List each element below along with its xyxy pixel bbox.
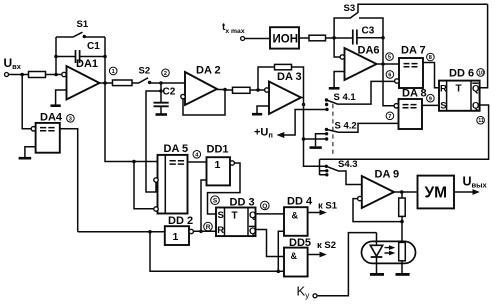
ground	[156, 113, 168, 116]
capacitor C3	[353, 18, 385, 64]
gate DD5	[284, 237, 311, 277]
LED	[370, 233, 382, 274]
svg-text:&: &	[292, 211, 299, 221]
wire DA9 feedback	[353, 199, 404, 224]
svg-text:S1: S1	[77, 19, 89, 30]
wire DA6 bubble input	[334, 38, 340, 57]
op-amp DA3	[256, 71, 301, 114]
svg-text:DD 4: DD 4	[287, 196, 313, 208]
svg-text:Q: Q	[262, 203, 267, 210]
wire to DA1	[46, 73, 62, 77]
resistor R2	[113, 80, 133, 86]
svg-text:11: 11	[478, 118, 484, 124]
svg-text:C2: C2	[163, 87, 176, 98]
node R	[204, 222, 213, 231]
svg-text:DA 7: DA 7	[401, 45, 426, 57]
svg-text:S: S	[213, 198, 218, 205]
resistor R1	[29, 72, 46, 78]
label t x max	[222, 22, 245, 35]
svg-text:DD5: DD5	[289, 237, 311, 249]
op-amp DA1	[62, 58, 100, 100]
opto arrows	[385, 245, 396, 255]
node 3	[67, 115, 75, 123]
wire DD3 Q to DD4	[256, 213, 285, 215]
svg-text:S: S	[218, 210, 224, 221]
switch S1	[56, 19, 105, 38]
node Q	[261, 201, 270, 210]
wire DA2 feedback	[183, 88, 227, 115]
wire DA8 out to DD6 S	[422, 104, 439, 106]
node S	[211, 196, 220, 205]
svg-text:DD 6: DD 6	[449, 68, 474, 80]
svg-text:&: &	[291, 251, 298, 261]
label K u	[297, 284, 311, 301]
svg-text:T: T	[456, 84, 462, 95]
svg-text:Q: Q	[472, 101, 479, 112]
ground	[370, 273, 384, 276]
svg-text:DA 8: DA 8	[402, 88, 427, 100]
svg-text:УМ: УМ	[425, 185, 448, 202]
wire DA1 output	[100, 81, 113, 85]
photoresistor	[399, 242, 406, 273]
wire to DA5 lower bubble	[134, 162, 154, 209]
svg-text:Kу: Kу	[297, 284, 311, 301]
wire feedback right vertical	[103, 37, 107, 83]
svg-text:Q: Q	[249, 226, 256, 237]
svg-text:6: 6	[388, 73, 391, 79]
op-amp DA9	[358, 169, 400, 209]
wire to DA2	[159, 81, 185, 85]
svg-text:+Uп: +Uп	[254, 127, 273, 140]
comparator DA5	[154, 143, 188, 214]
optocoupler	[362, 241, 416, 263]
ground	[329, 87, 340, 90]
svg-text:Uвх: Uвх	[4, 56, 22, 71]
node 6	[386, 71, 394, 79]
svg-text:S2: S2	[139, 66, 151, 77]
wire bottom bus	[150, 232, 284, 273]
svg-text:DA 9: DA 9	[375, 169, 400, 181]
svg-text:S 4.2: S 4.2	[335, 121, 357, 132]
gang dashed line	[332, 104, 334, 157]
wire DD6 Qbar out top loop	[480, 4, 488, 88]
gate DD4	[284, 196, 313, 236]
svg-text:Q: Q	[472, 84, 479, 95]
capacitor C1	[56, 41, 105, 63]
wire +Up arrow	[277, 108, 329, 138]
arrow k S1	[308, 201, 338, 216]
svg-text:R: R	[440, 84, 447, 95]
node 9	[427, 94, 435, 102]
op-amp DA2	[181, 65, 221, 106]
svg-text:S: S	[440, 101, 446, 112]
svg-text:DD1: DD1	[207, 144, 229, 156]
node 8	[427, 53, 435, 61]
wire DA3 out to S4.1 contact	[325, 103, 328, 106]
switch S4.1	[325, 81, 396, 104]
svg-text:1: 1	[173, 231, 179, 243]
svg-text:DD 2: DD 2	[168, 215, 193, 227]
wire DD2 out to DD3 R	[193, 230, 216, 234]
wire DA1 node down to DA5	[105, 83, 158, 163]
svg-text:C1: C1	[87, 41, 100, 52]
wire bus up to DD4	[278, 231, 284, 271]
resistor R7	[399, 192, 406, 243]
flip-flop DD6	[439, 68, 480, 112]
resistor R6	[299, 35, 353, 41]
wire S4.2 contact mid to ground	[316, 132, 329, 146]
ground	[51, 104, 61, 107]
svg-text:DA 3: DA 3	[277, 71, 302, 83]
wire DA7 out to DD6 R	[423, 63, 439, 88]
svg-text:tx max: tx max	[222, 22, 245, 35]
label Uvx	[4, 56, 22, 71]
node 10	[477, 69, 485, 77]
svg-text:ИОН: ИОН	[273, 34, 299, 46]
flip-flop DD3	[216, 197, 256, 238]
svg-text:S4.3: S4.3	[338, 159, 358, 170]
ground	[310, 146, 322, 149]
wire DA4 lower input	[25, 147, 36, 157]
switch S4.2	[325, 121, 399, 133]
terminal Uvx	[5, 73, 9, 77]
wire input	[9, 73, 29, 77]
wire DA5 out to DD1	[188, 161, 207, 163]
svg-text:9: 9	[429, 96, 432, 102]
node 2	[162, 69, 170, 77]
node 7	[386, 112, 394, 120]
wire DD3 Qbar to DD5	[256, 230, 285, 257]
wire DD6 Q out bottom loop	[320, 105, 489, 159]
wire DA1 lower input	[56, 90, 67, 105]
wire to ION	[245, 38, 270, 40]
label U vyh	[463, 175, 488, 190]
wire DA4 output	[60, 129, 78, 232]
svg-text:10: 10	[478, 70, 484, 76]
svg-text:Uвых: Uвых	[463, 175, 488, 190]
block UM	[418, 176, 455, 209]
wire DA3 lower input	[257, 106, 269, 113]
svg-text:DA 2: DA 2	[196, 65, 221, 77]
svg-text:S 4.1: S 4.1	[334, 92, 357, 103]
svg-text:R: R	[217, 225, 224, 236]
wire S4.3 contacts from DD6 Q	[320, 159, 329, 176]
comparator DA8	[394, 88, 427, 130]
wire C2 node to DA5 bubble	[146, 91, 161, 192]
arrow U vyh	[454, 189, 480, 195]
svg-text:7: 7	[388, 114, 391, 120]
svg-text:5: 5	[388, 55, 391, 61]
svg-text:S3: S3	[344, 3, 356, 14]
ground	[252, 113, 262, 116]
node 1	[109, 67, 117, 75]
ground	[396, 273, 410, 276]
comparator DA7	[395, 45, 426, 89]
wire Uvx to DA4	[22, 75, 31, 129]
wire feedback left vertical	[54, 37, 58, 75]
wire DD1 out to DD3 S	[208, 163, 241, 214]
switch S4.3	[325, 159, 362, 184]
wire DA6 lower input	[334, 72, 344, 88]
wire DA3 output vertical	[301, 96, 326, 166]
capacitor C2	[154, 83, 176, 114]
label +Up	[254, 127, 273, 140]
op-amp DA6	[340, 45, 379, 81]
node 5	[386, 53, 394, 61]
svg-text:T: T	[232, 211, 238, 222]
svg-text:R: R	[206, 224, 211, 231]
switch S2	[132, 66, 161, 85]
svg-text:DA6: DA6	[358, 45, 380, 57]
wire S4.2 contact bottom	[304, 137, 329, 140]
resistor R3	[225, 87, 258, 93]
node 11	[477, 116, 485, 124]
svg-text:к S1: к S1	[318, 201, 338, 212]
node 4	[193, 151, 201, 159]
block ION	[270, 27, 299, 48]
svg-text:8: 8	[429, 55, 432, 61]
wire DD2 out up to DD1 input	[201, 180, 207, 231]
svg-text:2: 2	[164, 71, 167, 77]
svg-text:1: 1	[215, 159, 221, 171]
svg-text:Q: Q	[249, 210, 256, 221]
svg-text:3: 3	[69, 116, 72, 122]
wire DA9 output	[394, 190, 418, 194]
gate DD1	[207, 144, 235, 186]
switch S3	[334, 3, 488, 38]
terminal K u	[313, 294, 317, 298]
wire DA4/C2 junction to DD2	[78, 230, 165, 234]
svg-text:DD 3: DD 3	[230, 197, 255, 209]
comparator DA4	[31, 112, 63, 153]
svg-text:к S2: к S2	[317, 240, 336, 251]
ground	[19, 157, 32, 160]
svg-text:C3: C3	[362, 26, 375, 37]
svg-text:1: 1	[112, 69, 115, 75]
svg-text:DA4: DA4	[40, 112, 63, 124]
gate DD2	[165, 215, 194, 245]
wire K u to LED	[317, 233, 377, 296]
svg-text:DA 5: DA 5	[164, 143, 189, 155]
terminal t x max	[241, 37, 245, 41]
wire DA6 out to DA7 and DA8	[377, 62, 400, 106]
resistor R4 DA3 feedback	[258, 64, 304, 96]
arrow k S2	[308, 240, 336, 257]
